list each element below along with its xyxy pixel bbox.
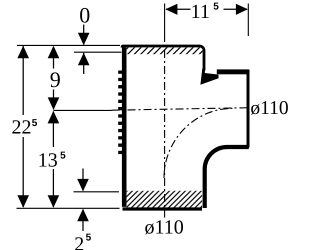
- svg-text:5: 5: [86, 233, 92, 244]
- node flow-curve-centerline: [164, 108, 232, 178]
- wire extension-line L1 top: [17, 44, 120, 46]
- svg-text:5: 5: [32, 118, 38, 129]
- svg-text:0: 0: [79, 3, 90, 28]
- dimension 9 line: [48, 46, 60, 110]
- branch end face: [247, 70, 250, 148]
- wire extension-line L4 socket-depth: [74, 191, 120, 193]
- svg-text:ø110: ø110: [250, 98, 288, 119]
- svg-text:11: 11: [191, 1, 210, 23]
- dimension 2.5 arrows: [77, 169, 89, 232]
- svg-text:22: 22: [12, 116, 32, 138]
- body bottom edge: [123, 207, 203, 210]
- branch lower profile: [205, 147, 249, 208]
- dimension 11.5 line: [165, 4, 248, 15]
- dimension 0 arrows: [78, 25, 90, 75]
- dimension 13.5 line: [48, 111, 60, 208]
- wire extension-line L2 zero: [74, 51, 122, 53]
- wire extension-line L5 bottom: [17, 207, 120, 209]
- body left ribbed bar: [122, 47, 127, 207]
- bottom hatch band: [127, 191, 203, 208]
- wire extension-line V2 right: [247, 4, 249, 37]
- rib teeth: [118, 71, 122, 155]
- node vertical-centerline: [164, 4, 166, 218]
- svg-text:13: 13: [38, 149, 58, 171]
- branch upper wedge: [200, 69, 218, 85]
- top hatch band: [127, 48, 203, 55]
- svg-text:5: 5: [60, 150, 66, 161]
- branch upper socket band: [217, 69, 249, 74]
- dimension 22.5 line: [17, 46, 29, 208]
- svg-text:2: 2: [74, 234, 84, 250]
- svg-text:5: 5: [213, 1, 219, 12]
- node horizontal-centerline: [112, 108, 251, 111]
- svg-text:ø110: ø110: [145, 216, 184, 238]
- body top edge + right edge: [123, 46, 204, 71]
- svg-text:9: 9: [50, 67, 61, 92]
- wire extension-line L3 center: [54, 109, 112, 111]
